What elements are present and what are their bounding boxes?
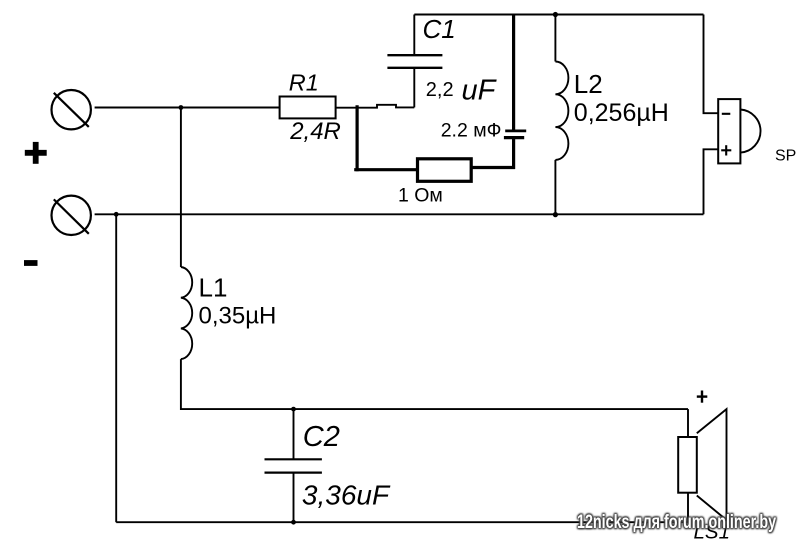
svg-text:2.2 мФ: 2.2 мФ bbox=[441, 120, 502, 142]
node: junction minus wire / down wire bbox=[114, 212, 119, 217]
svg-text:2,2: 2,2 bbox=[426, 79, 454, 101]
wire: L1 down and across to woofer bbox=[181, 359, 688, 409]
wire: thick branch down from R1 output node bbox=[356, 105, 359, 171]
svg-text:1 Ом: 1 Ом bbox=[398, 184, 443, 206]
svg-text:C1: C1 bbox=[423, 14, 456, 44]
svg-text:3,36uF: 3,36uF bbox=[302, 480, 391, 511]
svg-text:0,35µH: 0,35µH bbox=[199, 303, 277, 330]
label + (input polarity) bbox=[25, 142, 47, 164]
wire: vertical from plus node down to L1 bbox=[180, 108, 182, 268]
wire: bottom rail bbox=[116, 521, 688, 523]
node: junction on plus wire bbox=[179, 105, 184, 110]
capacitor C1 bbox=[387, 15, 442, 108]
wire: thick horizontal to 1 Om resistor bbox=[354, 168, 418, 171]
node: junction at C2 bottom bbox=[291, 520, 296, 525]
wire: top rail bbox=[414, 13, 703, 15]
speaker LS1 (woofer) bbox=[678, 409, 726, 520]
node: top rail / L2 junction bbox=[553, 12, 558, 17]
wire: right vertical, top rail to SP minus bbox=[704, 15, 719, 114]
wire: thick from 1 Om to 2.2 mF cap bbox=[471, 166, 515, 169]
label - (input polarity) bbox=[24, 260, 38, 266]
svg-text:SP: SP bbox=[775, 147, 796, 164]
tweeter SP bbox=[718, 99, 760, 163]
svg-text:2,4R: 2,4R bbox=[289, 118, 341, 145]
wire: minus branch down at left bbox=[115, 214, 117, 522]
inductor L1 bbox=[181, 267, 192, 359]
capacitor 2.2 mF (hand drawn, thick) bbox=[504, 131, 526, 138]
inductor L2 bbox=[555, 15, 568, 215]
wire: woofer top lead bbox=[687, 409, 689, 437]
svg-text:L1: L1 bbox=[199, 273, 228, 303]
node: junction minus rail / L2 bottom bbox=[553, 212, 558, 217]
label + (woofer polarity) bbox=[697, 391, 708, 403]
svg-text:R1: R1 bbox=[289, 70, 319, 96]
wire: minus terminal rail bbox=[95, 213, 704, 215]
resistor R1 bbox=[280, 97, 336, 119]
wire: plus terminal to R1 left bbox=[95, 107, 280, 109]
terminal + (input jack, top) bbox=[51, 90, 90, 129]
capacitor C2 bbox=[265, 409, 322, 522]
terminal - (input jack, bottom) bbox=[51, 196, 90, 235]
svg-text:uF: uF bbox=[462, 75, 498, 107]
svg-text:C2: C2 bbox=[303, 421, 340, 453]
svg-text:L2: L2 bbox=[574, 69, 603, 99]
resistor 1 Om bbox=[418, 159, 472, 182]
wire: SP plus down to minus rail bbox=[704, 149, 719, 214]
wire: thick vertical from cap top plate to top rail bbox=[512, 14, 515, 131]
wire: thick vertical up to cap bottom plate bbox=[512, 138, 515, 169]
wire: R1 right to C1 bottom lead (with hand-drawn jog) bbox=[336, 105, 415, 108]
watermark 12nicks для forum.onliner.by bbox=[577, 512, 776, 534]
svg-text:0,256µH: 0,256µH bbox=[574, 99, 669, 127]
node: junction at C2 top bbox=[291, 407, 296, 412]
wire: woofer bottom lead bbox=[687, 493, 689, 523]
